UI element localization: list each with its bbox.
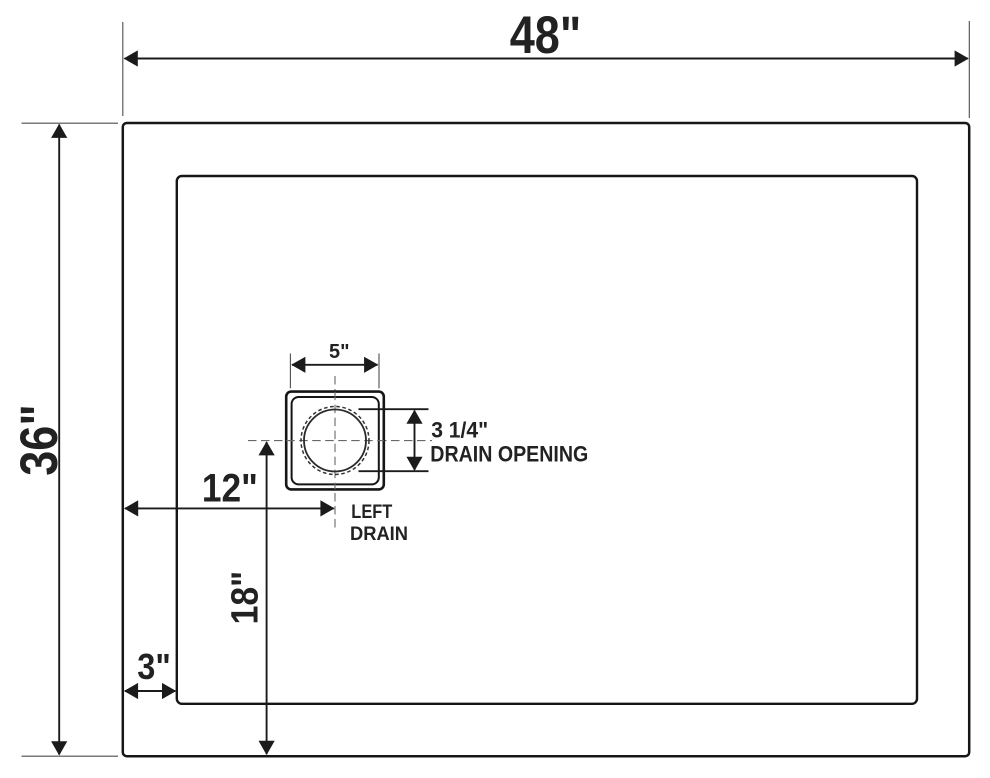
dimension 5in extension line right [378,354,380,389]
dimension 12in line with arrows [124,500,335,516]
drain gasket dashed circle [301,407,369,475]
drain flange outer square [286,392,384,490]
dimension 18in line with arrows [259,441,275,755]
dimension 5in line with arrows [291,357,378,373]
dimension 3in double arrow [124,683,176,699]
svg-text:18": 18" [225,571,267,625]
drain centerline vertical [334,376,336,528]
shower basin inner edge [177,176,917,704]
svg-text:48": 48" [510,6,582,65]
dimension 48in line with arrows [124,50,969,66]
svg-text:LEFT: LEFT [351,501,392,523]
drain opening solid circle [304,410,366,472]
svg-text:5": 5" [329,340,350,363]
dimension 3 1/4in vertical arrow [406,410,422,471]
svg-text:3 1/4": 3 1/4" [431,418,488,443]
svg-text:DRAIN: DRAIN [350,523,408,545]
svg-text:DRAIN OPENING: DRAIN OPENING [430,442,588,467]
drain opening leader line bottom [359,470,429,472]
dimension 36in extension line bottom [22,755,119,757]
dimension 48in extension line right [968,21,970,118]
drain centerline vertical inside square [334,392,336,490]
drain opening leader line top [359,408,429,410]
svg-text:3": 3" [137,646,171,687]
drain centerline horizontal [248,440,432,442]
dimension 36in line with arrows [51,124,67,756]
dimension 36in extension line top [22,122,119,124]
svg-text:12": 12" [202,467,258,511]
svg-text:36": 36" [10,404,69,476]
drain cover inner square [292,397,379,484]
drain centerline horizontal inside square [286,440,384,442]
dimension 5in extension line left [289,354,291,389]
dimension 48in extension line left [122,22,124,116]
shower pan outer edge [123,123,969,756]
